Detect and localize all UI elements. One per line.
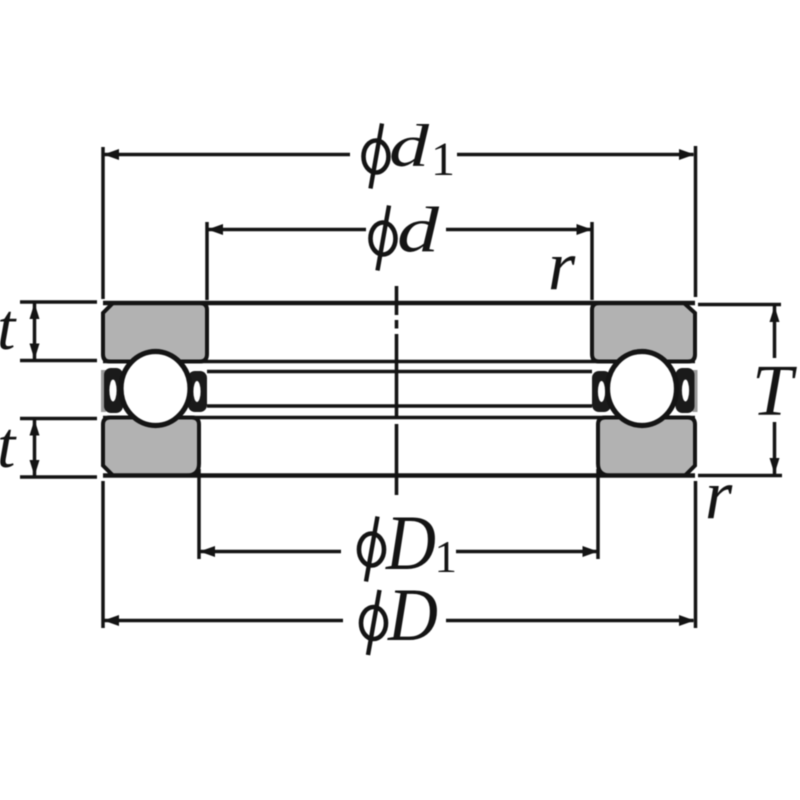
t dimension upper: extension line bottom [20,359,97,363]
t dimension upper: extension line top [20,300,97,304]
cage pocket outer (right ball, right side) [676,368,695,413]
extension line phi-D1 left [197,469,201,559]
svg-text:d: d [397,195,440,267]
extension line phi-d right [590,222,594,300]
T arrowhead up [770,306,780,322]
arrowhead phi-D1 left [200,546,216,557]
t lower arrowhead down [30,460,40,476]
dimension line phi-D1 (right segment) [456,550,598,554]
arrowhead phi-D1 right [583,546,599,557]
dimension line phi-d (right segment) [446,228,592,232]
t dimension lower: extension line bottom [20,475,97,479]
cage rivet hole (right ball, left side) [598,381,605,402]
t upper arrowhead up [30,303,40,319]
label phi-d1 [364,124,389,189]
dimension line phi-d1 (top, left segment) [104,153,350,157]
arrowhead phi-d1 left [104,149,120,160]
arrowhead phi-d left [208,224,224,235]
label phi-D [361,590,386,655]
svg-text:D: D [387,574,438,657]
housing washer right section (bottom-right gray block) [598,418,695,476]
T dimension: vertical dimension line [773,306,777,358]
dimension line phi-D (left segment) [104,619,343,623]
ball right [608,352,677,426]
svg-text:t: t [0,291,17,364]
svg-text:T: T [752,350,797,431]
svg-text:r: r [705,457,733,534]
extension line phi-D left [101,481,105,628]
cage sliver gray (right ball, outer) [693,370,698,412]
top face line of shaft washer [103,301,695,305]
label phi-d [371,206,396,271]
t lower arrowhead up [30,420,40,436]
extension line phi-d1 left [101,147,105,299]
cage sliver gray (left ball, outer) [101,370,106,412]
arrowhead phi-d right [577,224,593,235]
svg-text:t: t [0,409,17,482]
ball left [121,352,190,426]
centerline (vertical dash-dot axis) [395,286,399,315]
cage rivet hole (left ball, left side) [109,380,116,402]
dimension line phi-d (left segment) [207,228,366,232]
svg-text:r: r [548,228,576,305]
t upper arrowhead down [30,344,40,360]
T dimension: extension line bottom [698,474,782,478]
cage rivet hole (left ball, right side) [193,381,200,402]
extension line phi-d1 right [694,146,698,297]
extension line phi-d left [205,222,209,300]
top face line of housing washer [103,416,695,420]
shaft washer raceway edge line [207,370,592,374]
arrowhead phi-D left [104,615,120,626]
svg-text:1: 1 [431,133,455,186]
arrowhead phi-d1 right [679,149,695,160]
bottom face line of shaft washer [103,360,695,364]
label phi-D1 [359,517,384,582]
dimension line phi-D (right segment) [446,619,694,623]
shaft washer left section (top-left gray block) [103,303,207,362]
shaft washer right section (top-right gray block) [592,303,695,362]
cage pocket inner (right ball, left side) [592,371,611,412]
bottom face line of housing washer [103,473,695,477]
T arrowhead down [770,458,780,474]
cage pocket outer (left ball, left side) [104,368,123,413]
svg-text:D: D [385,499,436,586]
t dimension lower: extension line top [20,417,97,421]
T dimension: extension line top [698,303,781,307]
cage rivet hole (right ball, right side) [682,380,689,402]
dimension line phi-D1 (left segment) [199,550,341,554]
t dimension lower: vertical dimension line [33,420,37,477]
housing washer left section (bottom-left gray block) [103,418,199,476]
housing washer raceway edge line [207,404,592,408]
svg-text:d: d [389,113,430,179]
arrowhead phi-D right [679,615,695,626]
dimension line phi-d1 (top, right segment) [457,153,694,157]
cage pocket inner (left ball, right side) [188,371,207,412]
extension line phi-D1 right [596,469,600,559]
extension line phi-D right [694,481,698,628]
t dimension upper: vertical dimension line [33,303,37,360]
